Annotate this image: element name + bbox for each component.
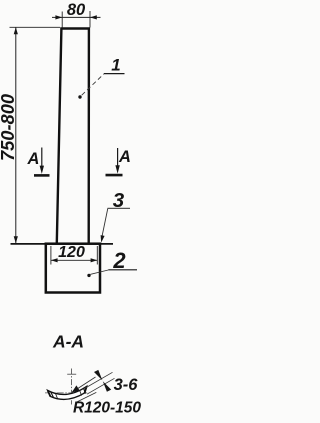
section A-A: curved strip cross-section (bent sheet) xyxy=(48,386,87,399)
radius leader line xyxy=(76,392,97,402)
dimension 80: left arrow xyxy=(55,15,62,19)
thickness dimension arrow upper (tip-to-tip) xyxy=(94,370,102,381)
section marker right: arrow head xyxy=(115,165,119,173)
dimension 80: right extension line xyxy=(89,11,91,28)
svg-text:120: 120 xyxy=(58,244,85,261)
ground line (item 3) xyxy=(11,243,114,245)
svg-text:A: A xyxy=(118,148,131,166)
svg-text:A: A xyxy=(27,150,40,168)
dimension 80: left extension line xyxy=(61,12,63,28)
dimension 120: left arrow xyxy=(51,258,58,262)
section marker left: arrow head xyxy=(40,166,44,174)
svg-text:R120-150: R120-150 xyxy=(73,400,141,417)
section marker right: arrow line xyxy=(117,148,119,167)
label 2 underline xyxy=(108,269,137,271)
dimension 750-800: dimension line xyxy=(15,28,17,244)
section A-A: hatching in strip right end xyxy=(83,388,85,394)
thickness extension line (inner surface) xyxy=(87,378,115,394)
dimension 750-800: top extension line xyxy=(10,26,61,28)
section A-A: horizontal centerline through arc top (dash-dot) xyxy=(45,392,89,394)
section marker left: cut plane bar xyxy=(34,174,50,177)
label 3 leader line xyxy=(102,208,108,235)
label 3 underline xyxy=(108,207,131,209)
thickness leader arrow on strip xyxy=(72,385,80,392)
label 3 leader arrow onto ground line xyxy=(101,235,105,243)
section A-A: strip left end cap xyxy=(48,390,51,396)
label 1 underline xyxy=(104,73,125,75)
dimension 750-800: bottom arrow xyxy=(14,236,18,243)
leader dot inside foundation for item 2 xyxy=(87,274,90,277)
svg-text:1: 1 xyxy=(111,56,120,75)
leader line to label 1 xyxy=(82,74,104,95)
section A-A: hatching in strip left end xyxy=(51,392,54,398)
section A-A: vertical centerline (dash-dot) xyxy=(71,369,73,405)
thickness dimension arrow lower (tip-to-tip) xyxy=(103,381,111,392)
section A-A: hatching in strip left-mid xyxy=(56,394,58,400)
post (item 1) outline xyxy=(57,29,89,244)
svg-text:750-800: 750-800 xyxy=(0,94,18,161)
svg-text:2: 2 xyxy=(112,248,126,273)
section A-A: hatching in strip right-mid xyxy=(80,390,82,396)
dimension 120: right extension line xyxy=(96,246,98,265)
dimension 120: right arrow xyxy=(91,258,98,262)
dimension 750-800: top arrow xyxy=(14,27,18,34)
thickness extension line (outer surface) xyxy=(85,372,113,388)
section marker left: arrow line xyxy=(41,148,43,168)
section marker right: cut plane bar xyxy=(106,174,123,177)
dimension 120: dimension line xyxy=(51,259,97,261)
dimension 80: dimension line xyxy=(52,16,101,18)
thickness leader line from strip xyxy=(72,377,96,392)
foundation (item 2) rectangle xyxy=(46,244,100,293)
svg-text:3-6: 3-6 xyxy=(114,376,139,394)
svg-text:A-A: A-A xyxy=(52,331,84,351)
section A-A: center mark horizontal tick xyxy=(67,373,76,375)
leader line to label 2 xyxy=(91,270,109,274)
leader dot on post for item 1 xyxy=(78,95,81,98)
section A-A: strip right end cap xyxy=(85,386,87,393)
svg-text:80: 80 xyxy=(67,1,86,19)
dimension 80: right arrow xyxy=(90,15,97,19)
dimension 120: left extension line xyxy=(50,246,52,265)
